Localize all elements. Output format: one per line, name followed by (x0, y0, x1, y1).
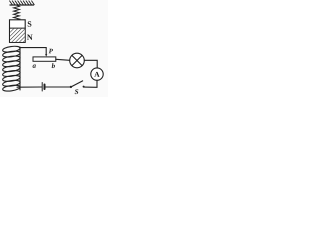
lamp (70, 53, 85, 68)
label S (switch) (75, 89, 79, 94)
wire ammeter down to bottom rail (84, 80, 97, 87)
label b (rheostat right terminal) (52, 63, 55, 68)
wire coil top to slider (20, 48, 47, 55)
label N (magnet bottom pole) (27, 35, 33, 40)
label a (rheostat left terminal) (33, 65, 36, 68)
magnet body (10, 20, 26, 43)
label S (magnet top pole) (28, 21, 32, 26)
coil L (2, 45, 20, 92)
magnet N pole hatched (10, 29, 25, 42)
magnet pole divider (10, 27, 26, 29)
ammeter (91, 68, 103, 80)
battery cell (42, 83, 44, 92)
switch S (70, 81, 85, 88)
wire switch to battery (46, 86, 70, 88)
spring (14, 5, 20, 20)
slider arrowhead (45, 54, 47, 57)
label P (slider) (49, 49, 53, 53)
wire battery to coil bottom (17, 86, 42, 88)
wire lamp to ammeter (84, 60, 97, 68)
wire rheostat b to lamp (56, 59, 70, 60)
label A (ammeter) (94, 72, 99, 77)
rheostat R body (33, 57, 56, 61)
ceiling (10, 1, 35, 5)
